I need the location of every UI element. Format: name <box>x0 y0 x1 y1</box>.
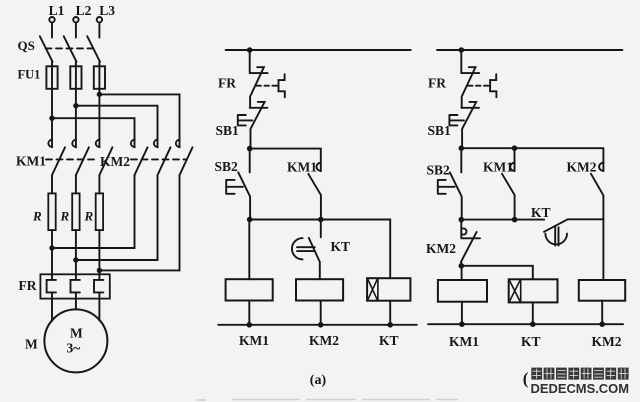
svg-text:FR: FR <box>428 76 446 91</box>
svg-text:KM1: KM1 <box>483 160 513 175</box>
svg-text:KM2: KM2 <box>309 333 339 348</box>
svg-text:L1: L1 <box>49 3 65 18</box>
svg-text:(: ( <box>523 369 529 388</box>
svg-text:FR: FR <box>218 76 236 91</box>
svg-text:R: R <box>84 209 94 224</box>
svg-text:M: M <box>70 326 83 341</box>
svg-text:FR: FR <box>19 278 37 293</box>
svg-text:KT: KT <box>331 239 351 254</box>
svg-text:KM1: KM1 <box>16 154 46 169</box>
svg-text:KM2: KM2 <box>426 241 456 256</box>
svg-text:QS: QS <box>18 38 35 53</box>
svg-text:KT: KT <box>379 333 399 348</box>
svg-text:SB1: SB1 <box>216 123 240 138</box>
svg-text:KM1: KM1 <box>287 160 317 175</box>
svg-text:KM1: KM1 <box>449 334 479 349</box>
svg-text:3~: 3~ <box>67 341 81 356</box>
svg-text:KT: KT <box>531 205 551 220</box>
svg-text:KT: KT <box>521 334 541 349</box>
svg-text:KM1: KM1 <box>239 333 269 348</box>
svg-text:KM2: KM2 <box>100 154 130 169</box>
svg-text:DEDECMS.COM: DEDECMS.COM <box>531 382 630 396</box>
svg-text:R: R <box>60 209 70 224</box>
svg-text:SB1: SB1 <box>428 123 452 138</box>
svg-text:L3: L3 <box>99 3 115 18</box>
svg-text:SB2: SB2 <box>215 159 239 174</box>
svg-text:SB2: SB2 <box>427 163 451 178</box>
svg-text:R: R <box>32 209 42 224</box>
svg-text:L2: L2 <box>76 3 92 18</box>
svg-text:FU1: FU1 <box>18 68 41 82</box>
svg-text:KM2: KM2 <box>592 334 622 349</box>
svg-text:KM2: KM2 <box>567 160 597 175</box>
svg-text:(a): (a) <box>310 373 327 388</box>
svg-text:M: M <box>25 337 38 352</box>
